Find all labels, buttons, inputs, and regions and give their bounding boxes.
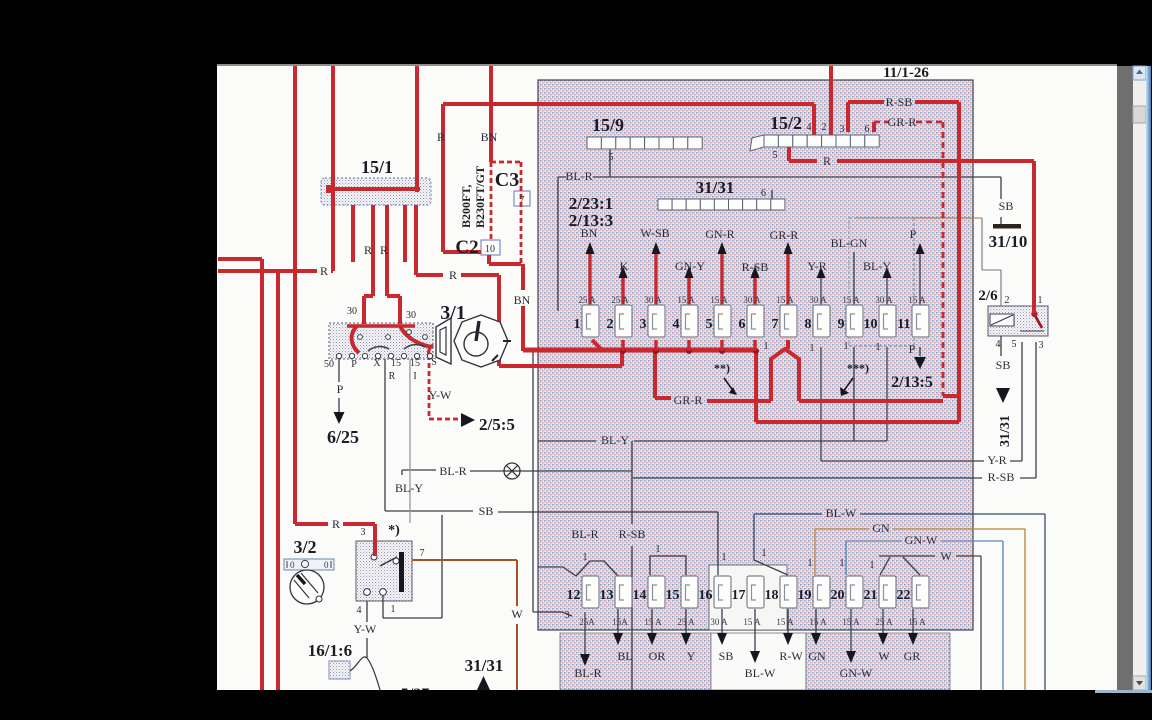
relay *) box [356, 541, 412, 601]
svg-text:7: 7 [520, 195, 525, 206]
scrollbar top button [1133, 66, 1146, 80]
svg-text:K: K [620, 259, 629, 273]
svg-text:GN: GN [808, 649, 826, 663]
svg-text:1: 1 [656, 544, 661, 555]
wire BL-W to fuse17 [754, 514, 1045, 690]
svg-text:30: 30 [347, 306, 357, 317]
svg-text:1: 1 [764, 341, 769, 352]
wire f17 out [754, 609, 756, 651]
svg-text:SB: SB [479, 504, 494, 518]
wire fuse7 fork [786, 340, 790, 349]
svg-text:15 A: 15 A [908, 295, 926, 305]
svg-text:15 A: 15 A [710, 295, 728, 305]
svg-text:GR: GR [904, 649, 921, 663]
wire fuse8 thin stem [820, 278, 822, 307]
wire BN to fuse bus [521, 306, 525, 351]
svg-text:4: 4 [807, 122, 812, 133]
svg-text:Y-R: Y-R [807, 259, 826, 273]
svg-text:6: 6 [739, 317, 746, 332]
arrow 6/25 [334, 412, 345, 424]
svg-text:GR-R: GR-R [674, 393, 703, 407]
arrow f13 out [613, 633, 623, 645]
wire BN from top [489, 66, 493, 162]
svg-text:C3: C3 [495, 169, 519, 191]
wire BL-R lamp line [402, 470, 632, 475]
wire fuse2 top stem [621, 278, 624, 307]
svg-text:P: P [909, 342, 916, 356]
wire f14 f15 bracket [650, 556, 686, 575]
svg-text:16/1:6: 16/1:6 [308, 641, 352, 660]
arrow ** pointer [724, 378, 734, 392]
wire fuse10 to BL-Y [886, 347, 888, 441]
svg-text:SB: SB [999, 199, 1014, 213]
svg-text:Y: Y [687, 649, 696, 663]
svg-text:15 A: 15 A [842, 295, 860, 305]
svg-text:4: 4 [673, 317, 680, 332]
wire f21 out [882, 609, 884, 633]
svg-text:10: 10 [485, 244, 495, 255]
svg-text:30 A: 30 A [809, 295, 827, 305]
wire GR-R fuse2 stub [655, 351, 671, 398]
svg-text:3: 3 [361, 527, 366, 538]
bottom connector block right (hatched) [806, 633, 950, 690]
svg-text:R: R [364, 243, 372, 257]
wire fuse bottom stub [720, 340, 723, 351]
fuse 3 [648, 305, 665, 337]
wire SB horizontal [385, 511, 718, 575]
fuse 13 [615, 576, 632, 608]
ignition internal contact arcs [368, 347, 389, 351]
wire fuse9 down [853, 347, 855, 441]
svg-text:BL-R: BL-R [565, 169, 592, 183]
svg-text:R-SB: R-SB [988, 470, 1015, 484]
arrow fuse3 [652, 242, 661, 254]
arrow P down to 2/13:5 [914, 357, 926, 369]
svg-text:*): *) [388, 523, 400, 538]
wire fuse8 to Y-R [820, 347, 822, 461]
viewer gray strip [1117, 66, 1133, 690]
wire relay pin1 loop [383, 515, 442, 618]
wire Y-R to relay 2/6 pin5 [821, 342, 1022, 461]
svg-text:S: S [431, 357, 437, 368]
bottom connector block middle (white) [711, 633, 806, 690]
wire f12 out [584, 612, 586, 654]
arrow fuse6 [751, 266, 760, 278]
svg-text:SB: SB [719, 649, 734, 663]
svg-text:6: 6 [865, 124, 870, 135]
wire fuse1 top stem [588, 254, 591, 307]
wire f17 f18 tent [754, 560, 788, 575]
svg-text:21: 21 [864, 588, 878, 603]
arrow fuse7 [784, 242, 793, 254]
svg-text:31/31: 31/31 [696, 178, 735, 197]
fuse 9 [846, 305, 863, 337]
bottom connector block left (hatched) [560, 633, 711, 690]
svg-text:BN: BN [514, 293, 531, 307]
svg-text:BL-Y: BL-Y [863, 259, 891, 273]
fuse 5 [714, 305, 731, 337]
svg-text:15A: 15A [612, 617, 628, 627]
fuse 2 [615, 305, 632, 337]
scrollbar bottom button [1133, 676, 1146, 690]
svg-text:30 A: 30 A [743, 295, 761, 305]
wire R-SB top [848, 102, 959, 422]
svg-text:3: 3 [565, 610, 570, 621]
wire fuse6 to R-SB [756, 351, 959, 422]
svg-text:6: 6 [761, 188, 766, 199]
arrow f18 out [783, 633, 793, 645]
wire fuse9 thin stem [853, 252, 855, 307]
arrow f20 out [846, 651, 856, 663]
svg-text:1: 1 [808, 558, 813, 569]
wire BL-R from 15/9 to ground 31/10 [558, 177, 1001, 311]
wire R-SB down col f13 [631, 441, 633, 690]
svg-text:GN: GN [872, 521, 890, 535]
wire ignition 50 to 6/25 [338, 359, 340, 413]
svg-text:13: 13 [600, 588, 614, 603]
fuse/relay box 11/1 (large hatched block) [538, 80, 973, 630]
wire f22 out [912, 609, 914, 633]
svg-text:R-SB: R-SB [886, 95, 913, 109]
key symbol of 3/1 [436, 318, 451, 364]
arrow f17 out [750, 651, 760, 663]
junction dots on bus [620, 348, 759, 354]
red endpoint blob in 15/1 [326, 185, 335, 193]
svg-text:5: 5 [773, 150, 778, 161]
svg-text:1: 1 [762, 548, 767, 559]
svg-text:4: 4 [996, 339, 1001, 350]
arrow to 2/5:5 [461, 413, 475, 427]
svg-text:BL-GN: BL-GN [831, 236, 868, 250]
svg-text:0: 0 [290, 560, 295, 570]
wire BN dashed C3 loop [429, 122, 943, 419]
svg-text:R: R [389, 371, 396, 382]
svg-text:25 A: 25 A [677, 617, 695, 627]
wire f18 out [787, 609, 789, 633]
svg-text:B230FT/GT: B230FT/GT [473, 166, 487, 228]
svg-text:31/10: 31/10 [989, 232, 1028, 251]
wire 15/1 pin d [403, 205, 407, 262]
svg-text:Y-R: Y-R [987, 453, 1006, 467]
wire GR-R dashed [874, 122, 943, 396]
svg-text:1: 1 [840, 558, 845, 569]
svg-text:R: R [449, 268, 457, 282]
svg-text:W: W [940, 549, 952, 563]
arrow fuse2 [619, 266, 628, 278]
svg-text:3: 3 [640, 317, 647, 332]
arrow fuse1 [586, 242, 595, 254]
wire fuse bottom stub [621, 340, 624, 351]
connector 15/1 [321, 178, 431, 205]
svg-text:0: 0 [324, 560, 329, 570]
svg-text:BL: BL [617, 649, 632, 663]
arrow SB 31/31 right [996, 388, 1010, 403]
relay 2/6 box [988, 306, 1048, 336]
svg-text:15: 15 [410, 358, 420, 369]
wire GR-R mid [707, 349, 943, 401]
svg-text:25 A: 25 A [875, 617, 893, 627]
svg-text:GN-W: GN-W [905, 533, 938, 547]
fuse 6 [747, 305, 764, 337]
wire f14 out [651, 609, 653, 633]
svg-text:8: 8 [805, 317, 812, 332]
svg-text:W-SB: W-SB [640, 226, 669, 240]
wire R to C3 top [443, 104, 814, 252]
svg-text:15 A: 15 A [743, 617, 761, 627]
svg-text:5: 5 [609, 152, 614, 163]
svg-text:SB: SB [996, 358, 1011, 372]
connector C2 [481, 240, 500, 255]
svg-text:OR: OR [649, 649, 666, 663]
svg-text:1: 1 [722, 552, 727, 563]
scrollbar thumb [1133, 106, 1146, 123]
svg-text:3/2: 3/2 [293, 537, 316, 557]
fuse 7 [780, 305, 797, 337]
svg-text:30 A: 30 A [644, 295, 662, 305]
svg-text:3/1: 3/1 [440, 302, 466, 324]
svg-text:R: R [332, 517, 340, 531]
wire W orange from relay pin7 [412, 560, 517, 690]
svg-text:25 A: 25 A [611, 295, 629, 305]
wire f20 out [850, 609, 852, 651]
svg-text:15/1: 15/1 [361, 157, 393, 177]
black mask bands [0, 690, 1152, 720]
svg-text:11/1-26: 11/1-26 [883, 65, 929, 81]
wire fuse6 top stem [753, 278, 756, 307]
svg-text:15: 15 [391, 358, 401, 369]
fuse 1 [582, 305, 599, 337]
wire fuse11 thin stem [919, 254, 921, 307]
component 3/2 clockspring [290, 570, 324, 604]
arrow f19 out [811, 633, 821, 645]
wire R from 15/2 pin5 [789, 146, 1034, 313]
svg-text:25A: 25A [579, 617, 595, 627]
ignition switch 3/1 body [329, 323, 433, 359]
fuse 4 [681, 305, 698, 337]
wire relay pin4 Y-W to 16/1:6 [350, 601, 380, 690]
svg-text:BL-R: BL-R [571, 527, 598, 541]
svg-text:6/25: 6/25 [327, 427, 359, 447]
wire fuse10 thin stem [886, 278, 888, 307]
wire pin5 of 15/9 [609, 149, 611, 177]
svg-text:3: 3 [840, 124, 845, 135]
wire fuse bottom stub [654, 340, 657, 351]
wire pin6 of 31/31 [771, 190, 773, 199]
svg-text:Y-W: Y-W [354, 622, 377, 636]
svg-text:30 A: 30 A [875, 295, 893, 305]
arrow f21 out [878, 633, 888, 645]
fuse 14 [648, 576, 665, 608]
scrollbar track [1133, 66, 1146, 690]
svg-text:31/31: 31/31 [465, 656, 504, 675]
wire fuse bottom stub [687, 340, 690, 351]
wire fuse3 top stem [654, 254, 657, 307]
svg-text:R-SB: R-SB [742, 260, 769, 274]
svg-text:2: 2 [822, 122, 827, 133]
svg-text:R: R [437, 130, 445, 144]
ignition switch terminal pins [336, 330, 432, 359]
svg-text:GN-Y: GN-Y [675, 259, 705, 273]
svg-text:R-SB: R-SB [619, 527, 646, 541]
svg-text:7: 7 [772, 317, 779, 332]
wire R into 15/1 right [415, 66, 419, 192]
fuse 11 [912, 305, 929, 337]
svg-text:R: R [320, 264, 328, 278]
svg-text:14: 14 [633, 588, 647, 603]
svg-text:X: X [373, 358, 381, 369]
svg-text:P: P [337, 382, 344, 396]
arrow f15 out [681, 633, 691, 645]
wire 15/1 internal bus [329, 187, 420, 191]
svg-text:5: 5 [706, 317, 713, 332]
arrow f14 out [647, 633, 657, 645]
svg-text:BL-Y: BL-Y [395, 481, 423, 495]
svg-text:**): **) [714, 361, 730, 375]
white cutout behind fuses 16-17 [709, 565, 787, 630]
wire 15/1 pin c to ignition 30 [387, 205, 400, 324]
svg-text:BL-Y: BL-Y [601, 433, 629, 447]
svg-text:***): ***) [847, 361, 869, 375]
svg-text:1: 1 [391, 604, 396, 615]
svg-text:15: 15 [666, 588, 680, 603]
wire relay 2/6 pin4 SB [1000, 336, 1002, 356]
fuse 21 [879, 576, 896, 608]
svg-text:25 A: 25 A [578, 295, 596, 305]
svg-text:GN-R: GN-R [705, 227, 734, 241]
arrow fuse4 [685, 266, 694, 278]
svg-text:GN-W: GN-W [840, 666, 873, 680]
wire 15/1 pin e to R bus [416, 205, 622, 366]
svg-text:1: 1 [844, 341, 849, 352]
svg-text:R: R [380, 243, 388, 257]
svg-text:22: 22 [897, 588, 911, 603]
white page area [217, 66, 1117, 690]
svg-text:BN: BN [581, 226, 598, 240]
wire f15 out [685, 609, 687, 633]
svg-text:30 A: 30 A [710, 617, 728, 627]
svg-text:B200FT,: B200FT, [459, 185, 473, 228]
svg-text:10: 10 [864, 317, 878, 332]
wire Y-W dashed from ignition S [429, 355, 459, 419]
svg-text:18: 18 [765, 588, 779, 603]
svg-text:4: 4 [357, 605, 362, 616]
svg-text:17: 17 [732, 588, 746, 603]
svg-text:P: P [910, 227, 917, 241]
svg-text:5: 5 [1012, 339, 1017, 350]
wire ignition 15 down [409, 359, 411, 523]
svg-text:1: 1 [810, 343, 815, 354]
arrow f22 out [908, 633, 918, 645]
connector 16/1:6 box [329, 661, 350, 679]
wire BL-Y horizontal [538, 440, 887, 442]
wire f13 out [617, 609, 619, 633]
fuse 18 [780, 576, 797, 608]
fuse 22 [912, 576, 929, 608]
svg-text:1: 1 [870, 560, 875, 571]
svg-text:15 A: 15 A [809, 617, 827, 627]
svg-text:11: 11 [897, 317, 910, 332]
wire GR-R stubs [874, 122, 959, 396]
wire f16 out [721, 609, 723, 633]
svg-text:15 A: 15 A [644, 617, 662, 627]
svg-text:GR-R: GR-R [888, 115, 917, 129]
svg-text:12: 12 [567, 588, 581, 603]
svg-text:2: 2 [1005, 295, 1010, 306]
wire fuse1 diagonal to bus [592, 340, 602, 350]
arrow *** pointer [843, 378, 853, 392]
svg-text:19: 19 [798, 588, 812, 603]
wire fuse7 top stem [786, 254, 789, 307]
svg-text:31/31: 31/31 [998, 415, 1013, 447]
wire C2 link [489, 255, 523, 290]
wire red feed 15/2 pin2 [829, 66, 833, 141]
svg-text:15 A: 15 A [776, 295, 794, 305]
svg-text:Y-W: Y-W [429, 388, 452, 402]
wire R main left vertical [295, 66, 375, 559]
svg-text:BL-W: BL-W [826, 506, 857, 520]
svg-text:15 A: 15 A [776, 617, 794, 627]
connector 15/9 [587, 137, 601, 149]
svg-text:P: P [351, 359, 357, 370]
svg-text:15/2: 15/2 [770, 113, 802, 133]
svg-text:15 A: 15 A [677, 295, 695, 305]
svg-text:BN: BN [481, 130, 498, 144]
svg-text:1: 1 [1038, 295, 1043, 306]
svg-text:W: W [878, 649, 890, 663]
svg-text:1: 1 [876, 342, 881, 353]
svg-text:1: 1 [574, 317, 581, 332]
svg-text:R: R [823, 154, 831, 168]
svg-text:15 A: 15 A [842, 617, 860, 627]
ignition switch red contacts [347, 324, 415, 328]
svg-text:I: I [413, 371, 416, 382]
wire fuse5 top stem [720, 254, 723, 307]
wire fuse4 top stem [687, 278, 690, 307]
wire f19 out [815, 609, 817, 633]
connector C3 [514, 191, 530, 206]
svg-text:7: 7 [420, 548, 425, 559]
arrow P fuse11 [916, 243, 925, 254]
svg-text:GR-R: GR-R [770, 228, 799, 242]
svg-text:1: 1 [583, 552, 588, 563]
svg-text:50: 50 [324, 359, 334, 370]
fuse 12 [582, 576, 599, 608]
fuse 16 [714, 576, 731, 608]
wire 15/1 pin b to ignition 30 [364, 205, 373, 324]
wire GN to fuse19 [815, 529, 1025, 690]
svg-text:3: 3 [1039, 340, 1044, 351]
wire f12 loop pin3 [533, 352, 572, 616]
arrow fuse5 [718, 242, 727, 254]
wire W to fuses 21-22 [879, 556, 981, 690]
svg-text:15 A: 15 A [908, 617, 926, 627]
svg-text:W: W [511, 607, 523, 621]
fuse 10 [879, 305, 896, 337]
relay * red pin3 entry [373, 541, 377, 556]
dashed bracket fuses 9-11 [849, 218, 914, 346]
arrow BL-Y fuse10 [883, 267, 892, 278]
svg-text:15/9: 15/9 [592, 115, 624, 135]
fuse 19 [813, 576, 830, 608]
svg-text:2/6: 2/6 [978, 288, 998, 304]
svg-text:BL-R: BL-R [574, 666, 601, 680]
wire R feed left 2 [218, 271, 333, 690]
fuse 17 [747, 576, 764, 608]
wire 15/1 pin a [351, 205, 355, 262]
fuse 20 [846, 576, 863, 608]
wire GN-W to fuse20 [846, 541, 1003, 690]
svg-text:2/13:5: 2/13:5 [891, 374, 933, 391]
